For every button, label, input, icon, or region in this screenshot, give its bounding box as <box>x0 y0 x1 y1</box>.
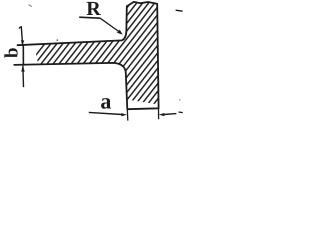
extension line right <box>158 109 160 120</box>
dimension b: vertical line bottom segment <box>22 66 25 88</box>
flange left edge <box>22 45 24 66</box>
dimension b: vertical line top segment <box>19 27 22 45</box>
dimension b: arrowhead top (down) <box>21 40 25 45</box>
R leader line <box>100 18 118 31</box>
hatched section area (T-profile body) <box>0 0 183 139</box>
top-right dash <box>176 10 183 11</box>
dimension a: right line <box>164 113 177 116</box>
T-profile outline <box>14 2 158 109</box>
R underline <box>79 17 100 18</box>
dimension b: arrowhead bottom (up) <box>21 66 25 72</box>
svg-text:a: a <box>100 88 111 113</box>
dimension a: left line <box>89 112 122 114</box>
dimension a: arrowhead left (points right) <box>121 113 127 116</box>
svg-text:b: b <box>1 47 22 58</box>
dimension a: arrowhead right (points left) <box>159 113 165 116</box>
small dot above flange <box>56 39 58 41</box>
small tick top-left <box>29 5 32 7</box>
dimension a: small dash far right <box>179 111 183 114</box>
R leader arrowhead <box>117 30 123 35</box>
extension line left <box>126 109 129 120</box>
faint speck right margin <box>179 99 181 101</box>
